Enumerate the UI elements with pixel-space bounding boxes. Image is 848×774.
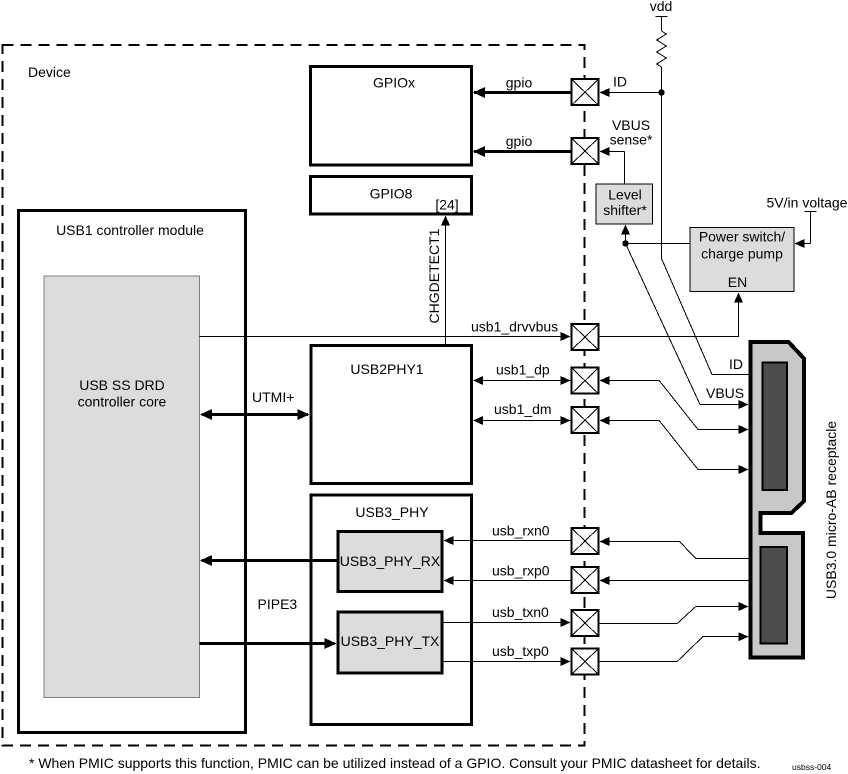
svg-text:UTMI+: UTMI+	[252, 389, 294, 405]
svg-text:Power switch/: Power switch/	[699, 229, 785, 245]
wire usb_txp0 (phy to pad)	[444, 661, 563, 663]
USB3_PHY_TX block	[338, 612, 442, 673]
wire UTMI+ bus	[202, 413, 308, 416]
wire VBUS node to power switch	[626, 243, 691, 245]
svg-text:Level: Level	[608, 187, 641, 203]
pad usb_txn0 (crossed square)	[572, 610, 599, 636]
wire vdd to resistor	[661, 17, 663, 32]
node VBUS junction dot	[622, 240, 628, 246]
svg-text:shifter*: shifter*	[603, 202, 647, 218]
svg-text:gpio: gpio	[506, 133, 533, 149]
wire usb1_dp (pad to receptacle)	[601, 381, 739, 430]
pad usb1_dm (crossed square)	[572, 407, 599, 433]
receptacle lower contact slot	[761, 547, 788, 644]
Level shifter block	[596, 184, 653, 224]
wire level shifter input (from VBUS node)	[625, 233, 627, 244]
svg-text:USB3_PHY_TX: USB3_PHY_TX	[341, 633, 440, 649]
svg-text:usb_txn0: usb_txn0	[492, 604, 549, 620]
svg-text:usb1_dp: usb1_dp	[496, 362, 550, 378]
receptacle upper contact slot	[763, 363, 788, 491]
wire usb_rxp0 (pad to phy)	[445, 580, 571, 582]
wire usb1_drvvbus (core to pad)	[200, 336, 563, 338]
pad ID (crossed square)	[572, 79, 599, 105]
svg-text:usb_rxp0: usb_rxp0	[492, 563, 550, 579]
svg-text:USB3.0 micro-AB receptacle: USB3.0 micro-AB receptacle	[823, 421, 839, 599]
pad usb_rxn0 (crossed square)	[572, 528, 599, 554]
USB1 controller module block	[19, 211, 246, 733]
GPIOx block	[311, 67, 472, 166]
svg-text:[24]: [24]	[435, 197, 458, 213]
vdd terminal tick	[656, 16, 668, 18]
wire usb_rxn0 (pad to phy)	[445, 540, 571, 542]
5V terminal tick	[805, 211, 817, 213]
svg-text:Device: Device	[28, 64, 71, 80]
wire usb_txn0 (pad to receptacle)	[600, 607, 739, 624]
svg-text:USB1 controller module: USB1 controller module	[56, 222, 204, 238]
wire resistor down to ID node and diagonal start	[661, 67, 663, 259]
svg-text:usb_txp0: usb_txp0	[492, 643, 549, 659]
USB2PHY1 block	[311, 346, 472, 484]
wire PIPE3 RX bus	[202, 559, 338, 562]
wire ID pad line	[601, 92, 662, 94]
svg-text:PIPE3: PIPE3	[258, 596, 298, 612]
wire usb_txp0 (pad to receptacle)	[600, 637, 739, 662]
USB SS DRD controller core block	[44, 276, 200, 698]
pad usb_txp0 (crossed square)	[572, 649, 599, 675]
wire usb1_drvvbus (pad to EN)	[600, 294, 739, 337]
USB3_PHY_RX block	[338, 532, 442, 592]
pad usb1_dp (crossed square)	[572, 368, 599, 394]
wire usb_rxn0 (receptacle to pad)	[601, 542, 750, 559]
svg-text:sense*: sense*	[610, 132, 653, 148]
resistor (vdd pull-up)	[657, 31, 667, 67]
wire usb1_dm (phy to pad)	[474, 420, 571, 422]
USB3_PHY block	[311, 495, 472, 725]
svg-text:usb1_dm: usb1_dm	[494, 401, 552, 417]
svg-text:USB3_PHY_RX: USB3_PHY_RX	[340, 553, 441, 569]
svg-text:VBUS: VBUS	[706, 385, 744, 401]
Power switch / charge pump block	[690, 228, 794, 292]
wire usb1_dp (phy to pad)	[474, 380, 571, 382]
svg-text:gpio: gpio	[506, 75, 533, 91]
wire gpio 2	[474, 150, 571, 153]
svg-text:5V/in voltage: 5V/in voltage	[767, 195, 848, 211]
wire usb1_dm (pad to receptacle)	[601, 421, 739, 470]
svg-text:usbss-004: usbss-004	[792, 762, 831, 772]
wire VBUS sense to pad	[601, 151, 625, 153]
GPIO8 block	[311, 177, 472, 215]
svg-text:* When PMIC supports this func: * When PMIC supports this function, PMIC…	[29, 755, 760, 771]
svg-text:EN: EN	[728, 274, 747, 290]
svg-text:GPIOx: GPIOx	[373, 75, 415, 91]
wire CHGDETECT1	[445, 224, 447, 344]
svg-text:controller core: controller core	[78, 394, 167, 410]
Device boundary (dashed box)	[3, 45, 585, 746]
svg-text:GPIO8: GPIO8	[370, 186, 413, 202]
wire gpio 1	[474, 91, 571, 94]
pad usb_rxp0 (crossed square)	[572, 567, 599, 593]
svg-text:usb_rxn0: usb_rxn0	[492, 523, 550, 539]
svg-text:USB SS DRD: USB SS DRD	[79, 377, 165, 393]
svg-text:USB3_PHY: USB3_PHY	[355, 504, 429, 520]
svg-text:ID: ID	[613, 74, 627, 90]
USB3.0 micro-AB receptacle body	[750, 342, 804, 658]
svg-text:usb1_drvvbus: usb1_drvvbus	[471, 319, 558, 335]
svg-text:CHGDETECT1: CHGDETECT1	[426, 228, 442, 323]
pad usb1_drvvbus (crossed square)	[572, 324, 599, 350]
wire PIPE3 TX bus	[200, 642, 335, 645]
wire usb_rxp0 (receptacle to pad)	[601, 580, 750, 582]
wire usb_txn0 (phy to pad)	[444, 622, 563, 624]
svg-text:charge pump: charge pump	[701, 246, 783, 262]
svg-text:vdd: vdd	[650, 0, 673, 14]
node ID junction dot	[658, 89, 664, 95]
wire vdd/ID diagonal to receptacle	[662, 259, 750, 375]
pad VBUS sense (crossed square)	[572, 138, 599, 164]
svg-text:USB2PHY1: USB2PHY1	[350, 361, 423, 377]
wire 5V input to power switch	[810, 212, 812, 244]
svg-text:ID: ID	[729, 356, 743, 372]
wire VBUS diagonal to receptacle	[626, 244, 739, 405]
